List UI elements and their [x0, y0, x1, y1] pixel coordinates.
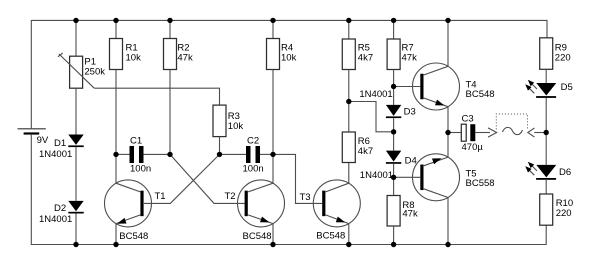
- junction bottom rail T2: [270, 242, 275, 247]
- resistor R7 47k: [387, 20, 417, 69]
- junction node output right: [544, 130, 549, 135]
- svg-text:1N4001: 1N4001: [39, 214, 72, 225]
- capacitor C1 100n: [116, 136, 170, 175]
- diode D3 1N4001: [359, 89, 415, 118]
- junction bottom rail T1: [113, 242, 118, 247]
- junction top rail R2: [167, 18, 172, 23]
- svg-text:D6: D6: [559, 167, 571, 178]
- arrow output left: [488, 128, 497, 137]
- arrow output right: [528, 128, 546, 137]
- svg-text:10k: 10k: [126, 52, 142, 63]
- diode D4 1N4001: [360, 151, 417, 181]
- svg-text:C3: C3: [462, 114, 474, 125]
- LED D5: [525, 80, 573, 98]
- junction node D3 D4: [391, 129, 396, 134]
- wire P1 wiper to R3: [94, 88, 219, 105]
- wire R8 to bottom rail: [393, 226, 395, 245]
- svg-text:4k7: 4k7: [358, 52, 373, 63]
- svg-text:BC558: BC558: [466, 178, 495, 189]
- wire cross coupling C2 node to T1 base: [144, 154, 220, 203]
- junction bottom rail T5: [445, 242, 450, 247]
- svg-text:1N4001: 1N4001: [359, 89, 392, 100]
- potentiometer P1 250k: [58, 53, 105, 88]
- svg-text:C2: C2: [247, 136, 259, 147]
- wire D1 to D2: [75, 147, 77, 201]
- svg-text:100n: 100n: [243, 164, 264, 175]
- transistor T1 BC548: [105, 154, 166, 244]
- LED D6: [525, 162, 571, 180]
- wire D2 to bottom rail: [75, 214, 77, 245]
- svg-text:47k: 47k: [177, 52, 193, 63]
- wire R3 to C2 left node: [219, 137, 221, 155]
- junction node C1 right: [167, 152, 172, 157]
- svg-text:1N4001: 1N4001: [39, 149, 72, 160]
- svg-text:220: 220: [556, 208, 572, 219]
- resistor R3 10k: [213, 105, 243, 137]
- wire D4 to T5 base node: [393, 164, 395, 196]
- diode D1 1N4001: [39, 135, 84, 161]
- svg-text:10k: 10k: [228, 121, 244, 132]
- wire D5 to output node: [545, 98, 547, 165]
- junction top rail R4: [270, 18, 275, 23]
- wire R1 to C1/T1 node: [115, 70, 117, 155]
- junction top rail T4: [445, 18, 450, 23]
- resistor R8 47k: [387, 196, 418, 227]
- svg-text:D1: D1: [54, 138, 66, 149]
- wire top rail: [31, 20, 547, 128]
- junction top rail R1: [113, 18, 118, 23]
- diode D2 1N4001: [39, 201, 84, 225]
- junction node C1 left: [113, 152, 118, 157]
- svg-text:470µ: 470µ: [462, 142, 484, 153]
- transistor T4 BC548: [394, 20, 495, 132]
- svg-text:D3: D3: [404, 107, 416, 118]
- wire R5 to node: [348, 70, 350, 102]
- resistor R10 220: [540, 180, 573, 225]
- svg-text:T1: T1: [155, 191, 166, 202]
- wire bottom rail: [31, 135, 546, 245]
- svg-text:4k7: 4k7: [358, 146, 373, 157]
- svg-text:BC548: BC548: [466, 89, 495, 100]
- svg-text:C1: C1: [130, 136, 142, 147]
- junction node R5 R6: [346, 99, 351, 104]
- wire R9 to D5: [545, 69, 547, 83]
- capacitor C2 100n: [220, 136, 274, 175]
- wire D3 to D4: [393, 118, 395, 151]
- connector box with sine: [496, 114, 527, 135]
- transistor T5 BC558: [394, 133, 495, 245]
- svg-text:47k: 47k: [402, 52, 418, 63]
- junction node C2 right: [270, 152, 275, 157]
- wire P1 to D1: [75, 88, 77, 134]
- wire R4 to C2 right node: [272, 70, 274, 155]
- svg-text:100n: 100n: [130, 164, 151, 175]
- svg-text:10k: 10k: [281, 52, 297, 63]
- wire P1 column: [75, 20, 77, 56]
- svg-text:T2: T2: [225, 191, 236, 202]
- svg-text:BC548: BC548: [316, 231, 345, 242]
- battery BAT 9V: [18, 129, 49, 146]
- svg-text:D2: D2: [54, 203, 66, 214]
- junction node C3 left: [445, 130, 450, 135]
- svg-text:250k: 250k: [84, 66, 105, 77]
- resistor R6 4k7: [342, 102, 373, 163]
- junction top rail P1: [73, 18, 78, 23]
- junction node T5 base: [391, 175, 396, 180]
- resistor R4 10k: [267, 20, 297, 69]
- svg-text:D5: D5: [561, 82, 573, 93]
- junction bottom rail T3: [346, 242, 351, 247]
- resistor R5 4k7: [342, 20, 373, 69]
- junction node T4 base: [391, 84, 396, 89]
- junction node C2 left: [217, 152, 222, 157]
- junction bottom rail R8: [391, 242, 396, 247]
- wire cross coupling C1 node to T2 base: [170, 154, 245, 203]
- svg-text:9V: 9V: [37, 135, 49, 146]
- transistor T2 BC548: [225, 154, 285, 244]
- capacitor C3 470u: [448, 114, 490, 154]
- resistor R9 220: [540, 38, 571, 70]
- junction bottom rail D2: [73, 242, 78, 247]
- svg-text:1N4001: 1N4001: [360, 170, 393, 181]
- junction top rail R7: [391, 18, 396, 23]
- wire node to D3 cathode: [349, 102, 394, 132]
- svg-text:BC548: BC548: [119, 231, 148, 242]
- wire R2 to C1 right node: [169, 70, 171, 155]
- resistor R2 47k: [164, 20, 193, 69]
- junction top rail R5: [346, 18, 351, 23]
- svg-text:D4: D4: [405, 156, 417, 167]
- wire C2 node to T3 base: [273, 154, 322, 203]
- wire R7 to T4 base node: [393, 70, 395, 105]
- transistor T3 BC548: [300, 163, 361, 245]
- svg-text:47k: 47k: [402, 209, 418, 220]
- svg-text:BC548: BC548: [243, 231, 272, 242]
- svg-text:T3: T3: [300, 192, 311, 203]
- svg-text:220: 220: [555, 52, 571, 63]
- resistor R1 10k: [110, 20, 142, 69]
